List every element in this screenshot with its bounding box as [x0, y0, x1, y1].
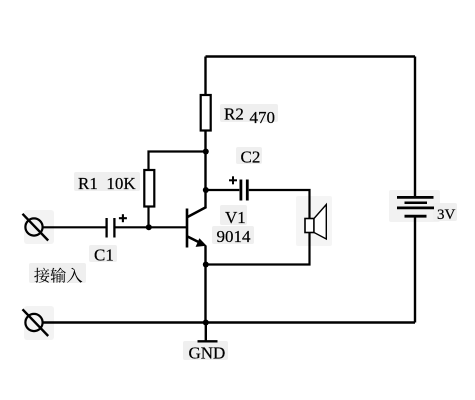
- transistor V1 collector stroke: [188, 207, 207, 217]
- transistor V1 base bar: [186, 209, 189, 248]
- svg-text:C1: C1: [94, 246, 114, 265]
- wire right rail upper: [414, 57, 416, 198]
- svg-text:GND: GND: [189, 343, 226, 362]
- wire R2 to collector node: [204, 131, 206, 208]
- node R1 branch junction: [203, 149, 209, 155]
- wire top to R2: [204, 57, 206, 96]
- node ground junction: [203, 320, 209, 326]
- wire bottom rail: [43, 321, 415, 323]
- node base junction: [146, 224, 152, 230]
- ground: [198, 323, 218, 342]
- svg-text:9014: 9014: [217, 227, 252, 246]
- node C2 branch junction: [203, 187, 209, 193]
- svg-text:V1: V1: [225, 208, 246, 227]
- wire right rail lower: [414, 216, 416, 322]
- node emitter junction: [203, 262, 209, 268]
- wire node to R1 top: [149, 152, 206, 170]
- wire C1 to base: [116, 226, 187, 228]
- wire emitter down: [204, 246, 206, 323]
- wire terminal to C1: [43, 226, 106, 228]
- wire top rail: [206, 55, 416, 57]
- svg-text:470: 470: [250, 108, 276, 127]
- wire node to C2: [206, 189, 240, 191]
- input terminal upper: [23, 214, 49, 241]
- polarity plus C2: [229, 176, 237, 184]
- polarity plus C1: [119, 214, 127, 222]
- label input chinese 接输入: [34, 268, 82, 283]
- capacitor C2: [241, 180, 247, 201]
- speaker B1: [305, 205, 326, 240]
- capacitor C1: [107, 218, 115, 238]
- battery BT1 3V: [397, 197, 434, 216]
- transistor V1 emitter arrow: [196, 238, 207, 247]
- svg-text:R2: R2: [224, 105, 244, 124]
- resistor R1: [144, 170, 154, 207]
- wire speaker down: [206, 233, 310, 265]
- svg-text:C2: C2: [241, 148, 261, 167]
- wire R1 bottom to base node: [147, 207, 149, 227]
- svg-text:R1 10K: R1 10K: [78, 174, 136, 193]
- resistor R2: [201, 95, 211, 131]
- wire C2 to speaker: [249, 190, 310, 219]
- input terminal lower: [23, 309, 49, 336]
- transistor V1 emitter stroke: [188, 237, 204, 245]
- svg-text:3V: 3V: [437, 207, 456, 223]
